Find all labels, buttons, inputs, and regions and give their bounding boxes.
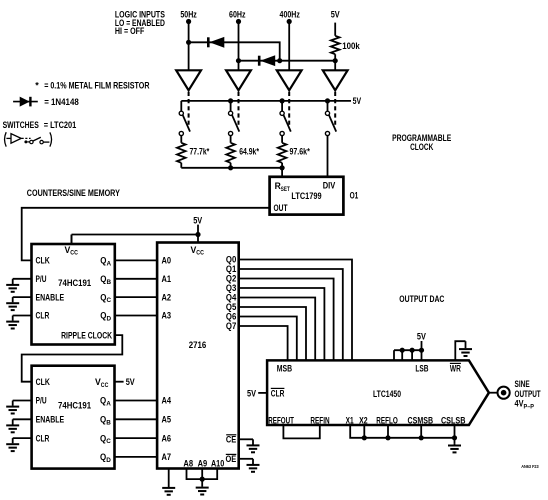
svg-text:A8: A8 [183, 458, 193, 468]
svg-text:74HC191: 74HC191 [58, 401, 91, 411]
svg-text:64.9k*: 64.9k* [239, 146, 259, 156]
svg-text:A7: A7 [162, 452, 172, 462]
svg-text:= LTC201: = LTC201 [44, 120, 77, 130]
svg-text:CSLSB: CSLSB [441, 415, 466, 425]
svg-text:WR: WR [450, 363, 461, 373]
svg-text:Q2: Q2 [226, 274, 236, 284]
svg-text:HI = OFF: HI = OFF [115, 26, 145, 36]
svg-text:REFIN: REFIN [310, 415, 329, 425]
svg-text:OE: OE [226, 454, 237, 464]
svg-text:CLR: CLR [271, 388, 285, 398]
svg-text:A3: A3 [162, 311, 172, 321]
svg-text:74HC191: 74HC191 [58, 278, 91, 288]
svg-text:P/U: P/U [36, 396, 47, 406]
svg-text:Q6: Q6 [226, 312, 236, 322]
svg-text:REFOUT: REFOUT [268, 415, 294, 425]
svg-text:60Hz: 60Hz [229, 9, 246, 19]
svg-text:A5: A5 [162, 415, 172, 425]
svg-text:CLK: CLK [36, 256, 51, 266]
svg-text:MSB: MSB [277, 363, 293, 373]
svg-text:A0: A0 [162, 256, 172, 266]
svg-text:LTC1799: LTC1799 [291, 191, 321, 201]
svg-text:77.7k*: 77.7k* [190, 146, 210, 156]
svg-text:50Hz: 50Hz [180, 9, 197, 19]
svg-text:5V: 5V [417, 332, 426, 342]
svg-text:5V: 5V [126, 377, 135, 387]
svg-text:Q3: Q3 [226, 283, 236, 293]
svg-text:2716: 2716 [189, 340, 207, 350]
svg-text:OUTPUT: OUTPUT [515, 389, 542, 399]
svg-text:*: * [35, 81, 39, 91]
svg-text:DIV: DIV [323, 181, 336, 191]
svg-text:ENABLE: ENABLE [36, 415, 65, 425]
svg-text:A2: A2 [162, 292, 172, 302]
svg-text:OUTPUT DAC: OUTPUT DAC [399, 294, 444, 304]
svg-text:97.6k*: 97.6k* [290, 146, 311, 156]
svg-text:P/U: P/U [36, 274, 47, 284]
svg-text:5V: 5V [353, 96, 362, 106]
svg-text:5V: 5V [193, 215, 202, 225]
svg-text:CLR: CLR [36, 311, 50, 321]
svg-text:5V: 5V [247, 388, 256, 398]
svg-text:CSMSB: CSMSB [408, 415, 434, 425]
svg-text:AN63 F23: AN63 F23 [521, 464, 539, 469]
svg-text:Q7: Q7 [226, 321, 236, 331]
svg-text:LSB: LSB [415, 363, 428, 373]
svg-text:A10: A10 [211, 458, 224, 468]
svg-text:COUNTERS/SINE MEMORY: COUNTERS/SINE MEMORY [27, 188, 120, 198]
svg-text:A4: A4 [162, 396, 172, 406]
svg-text:X2: X2 [359, 415, 368, 425]
svg-text:400Hz: 400Hz [280, 9, 301, 19]
svg-text:Q0: Q0 [226, 255, 236, 265]
svg-text:Q4: Q4 [226, 293, 236, 303]
svg-text:RIPPLE CLOCK: RIPPLE CLOCK [61, 330, 112, 340]
svg-text:REFLO: REFLO [376, 415, 398, 425]
svg-text:A6: A6 [162, 433, 172, 443]
svg-text:ENABLE: ENABLE [36, 292, 65, 302]
svg-text:5V: 5V [331, 9, 340, 19]
svg-text:CLR: CLR [36, 433, 50, 443]
svg-text:= 0.1% METAL FILM RESISTOR: = 0.1% METAL FILM RESISTOR [44, 81, 150, 91]
svg-text:SINE: SINE [515, 379, 530, 389]
svg-text:A1: A1 [162, 274, 172, 284]
svg-text:O1: O1 [350, 191, 359, 201]
svg-text:LTC1450: LTC1450 [373, 389, 401, 399]
svg-text:Q5: Q5 [226, 302, 236, 312]
svg-text:100k: 100k [342, 41, 360, 51]
svg-text:OUT: OUT [274, 203, 288, 213]
svg-text:CLK: CLK [36, 377, 51, 387]
svg-text:CLOCK: CLOCK [410, 142, 434, 152]
svg-text:CE: CE [226, 434, 236, 444]
svg-text:= 1N4148: = 1N4148 [44, 97, 79, 107]
svg-text:Q1: Q1 [226, 264, 236, 274]
svg-text:A9: A9 [198, 458, 208, 468]
svg-text:X1: X1 [346, 415, 354, 425]
svg-text:SWITCHES: SWITCHES [3, 120, 39, 130]
